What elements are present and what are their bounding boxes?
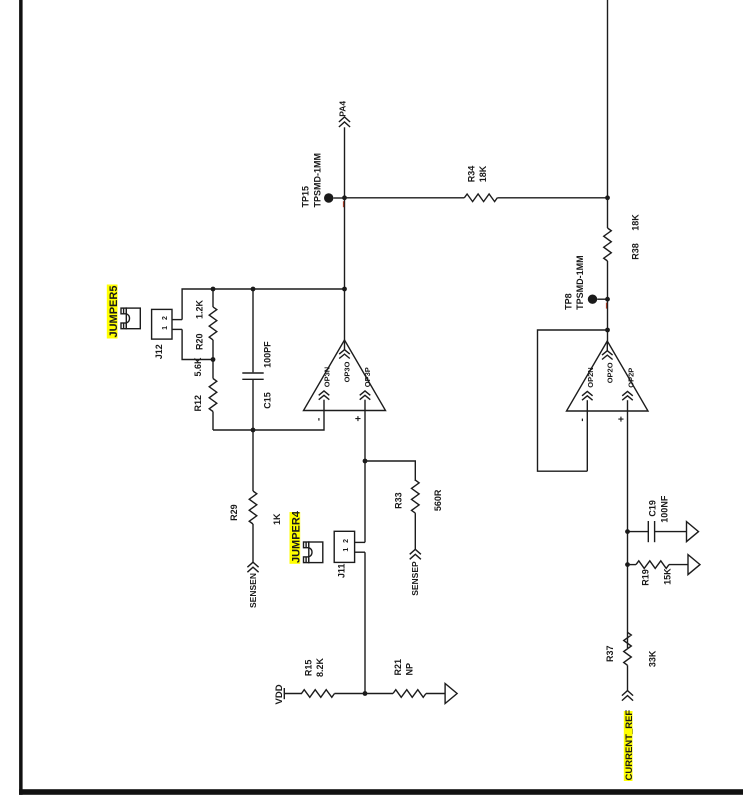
wire OP2 feedback [538, 330, 608, 471]
pin label OP2P [627, 368, 636, 388]
wire PA4 to output node [344, 127, 346, 198]
ground symbol (R19) [688, 555, 700, 575]
testpoint TP15 [324, 193, 345, 202]
pin number 1 of TP15 (red tick) [343, 201, 344, 207]
svg-text:OP2N: OP2N [586, 367, 595, 387]
wire node A to OP3 output [344, 198, 346, 340]
label R33 [394, 492, 404, 509]
op-amp U-OP3 triangle [304, 340, 386, 411]
svg-text:100PF: 100PF [263, 341, 273, 368]
label plus OP3 [353, 416, 364, 422]
net connector PA4 chevron [339, 117, 350, 127]
svg-text:5.6K: 5.6K [193, 357, 203, 377]
pin number 2 of J12 [162, 316, 169, 320]
connector J11 [334, 531, 365, 562]
net connector SENSEP chevron [410, 549, 421, 559]
svg-text:R19: R19 [641, 569, 651, 586]
svg-text:18K: 18K [478, 165, 488, 182]
wire OP3 non-inverting input down [364, 411, 366, 543]
label 1.2K (R20) [194, 299, 204, 319]
pin number 1 of TP8 (red tick) [606, 303, 607, 309]
net label SENSEP [410, 561, 420, 596]
svg-text:R34: R34 [467, 166, 477, 183]
wire top rail [182, 289, 344, 320]
label TPSMD-1MM (TP8) [575, 255, 585, 310]
svg-text:C15: C15 [263, 392, 273, 409]
wire VDD to R15 [284, 693, 302, 695]
svg-text:-: - [313, 418, 324, 421]
svg-text:JUMPER5: JUMPER5 [108, 286, 120, 338]
svg-text:R12: R12 [193, 395, 203, 412]
label TP8 [564, 293, 574, 310]
svg-text:1K: 1K [272, 513, 282, 525]
label R29 [229, 504, 239, 521]
pin number 2 of J11 [343, 539, 350, 543]
label R38 [631, 243, 641, 260]
resistor R37 [624, 632, 632, 665]
testpoint TP8 [588, 295, 608, 304]
pin number 1 of J11 [343, 548, 350, 552]
pin label OP2O [605, 362, 614, 383]
svg-text:R29: R29 [229, 504, 239, 521]
svg-text:2: 2 [162, 316, 169, 320]
wire bottom rail to inverting input [213, 411, 324, 431]
capacitor C15 [242, 289, 263, 430]
label J11 [337, 564, 347, 579]
junction R20 top [211, 287, 216, 292]
svg-text:OP3O: OP3O [343, 361, 352, 382]
label C15 [263, 392, 273, 409]
svg-text:NP: NP [405, 663, 415, 676]
wire top feed [607, 0, 609, 228]
pin label OP2N [586, 367, 595, 387]
wire R37 to CURRENT_REF [627, 665, 629, 690]
svg-text:-: - [577, 418, 588, 421]
label 560R (R33) [433, 489, 443, 511]
label R12 [193, 395, 203, 412]
svg-text:+: + [353, 416, 364, 422]
label R20 [194, 333, 204, 350]
junction output node on rail [342, 287, 347, 292]
resistor R29 [249, 430, 257, 562]
label 5.6K (R12) [193, 357, 203, 377]
svg-text:TP15: TP15 [301, 186, 311, 208]
svg-text:SENSEN: SENSEN [248, 573, 258, 608]
svg-text:J11: J11 [337, 564, 347, 579]
resistor R38 [604, 228, 612, 261]
junction node B [605, 195, 610, 200]
resistor R15 [302, 690, 366, 698]
svg-text:SENSEP: SENSEP [410, 561, 420, 596]
wire C19 to ground [655, 531, 687, 533]
pin label OP3N [323, 367, 332, 387]
ground symbol (C19) [687, 522, 699, 542]
pin chevron OP3O (output) [339, 340, 350, 359]
resistor R12 [209, 360, 217, 431]
wire OP2 inverting input [586, 411, 588, 471]
svg-text:2: 2 [343, 539, 350, 543]
junction at TP15 node [342, 195, 347, 200]
svg-text:OP2O: OP2O [605, 362, 614, 383]
pin number 1 of J12 [162, 326, 169, 330]
svg-text:100NF: 100NF [660, 495, 670, 523]
resistor R21 [365, 690, 445, 698]
junction at TP8 node [605, 297, 610, 302]
svg-text:TPSMD-1MM: TPSMD-1MM [313, 153, 323, 208]
pin chevron OP2P (non-inverting input) [622, 391, 633, 411]
wire R38 to OP2 output node [607, 261, 609, 341]
net label JUMPER5 (highlighted) [107, 285, 120, 339]
svg-text:J12: J12 [154, 344, 164, 359]
svg-text:R20: R20 [194, 333, 204, 350]
svg-text:VDD: VDD [274, 684, 285, 704]
svg-text:OP3P: OP3P [363, 367, 372, 387]
junction R19 node [625, 562, 630, 567]
resistor R20 [209, 289, 217, 360]
svg-text:R21: R21 [393, 659, 403, 676]
net connector CURRENT_REF chevron [622, 691, 633, 701]
net connector SENSEN chevron [247, 562, 258, 572]
label 18K (R38) [631, 214, 641, 231]
wire J11 pin1 down to VDD rail [364, 552, 366, 693]
wire R34 to node B [497, 197, 607, 199]
svg-text:R37: R37 [605, 645, 615, 662]
label TP15 [301, 186, 311, 208]
label 100NF (C19) [660, 495, 670, 523]
pin chevron OP2O (output) [602, 341, 613, 360]
resistor R19 [628, 561, 689, 569]
label 15K (R19) [663, 568, 673, 585]
connector J12 [152, 309, 183, 339]
svg-text:8.2K: 8.2K [315, 657, 325, 677]
wire to C19 [628, 531, 649, 533]
svg-text:1: 1 [162, 326, 169, 330]
sheet border bottom [19, 789, 743, 795]
label J12 [154, 344, 164, 359]
junction C19 node [625, 529, 630, 534]
pin chevron OP3P (non-inverting input) [360, 391, 371, 411]
pin label OP3O [343, 361, 352, 382]
label minus OP2 [577, 418, 588, 421]
pin chevron OP2N (inverting input) [582, 391, 593, 411]
svg-text:OP3N: OP3N [323, 367, 332, 387]
net label SENSEN [248, 573, 258, 608]
label R37 [605, 645, 615, 662]
svg-text:560R: 560R [433, 489, 443, 511]
svg-text:18K: 18K [631, 214, 641, 231]
jumper icon JUMPER5 [121, 308, 140, 329]
svg-text:CURRENT_REF: CURRENT_REF [624, 710, 635, 781]
wire J12 pin1 to R20 bottom [182, 329, 213, 359]
net label PA4 [337, 101, 347, 117]
junction C15 top [251, 287, 256, 292]
pin chevron OP3N (inverting input) [319, 391, 330, 411]
resistor R33 [412, 480, 420, 549]
label 8.2K (R15) [315, 657, 325, 677]
label TPSMD-1MM (TP15) [313, 153, 323, 208]
svg-text:C19: C19 [648, 500, 658, 517]
net label JUMPER4 (highlighted) [290, 510, 303, 564]
label 18K (R34) [478, 165, 488, 182]
junction R33 node [363, 459, 368, 464]
label 33K (R37) [648, 650, 658, 667]
ground symbol (R21) [445, 684, 457, 704]
label R15 [304, 660, 314, 677]
jumper icon JUMPER4 [304, 542, 323, 563]
svg-text:TP8: TP8 [564, 293, 574, 310]
label 1K (R29) [272, 513, 282, 525]
wire OP2 non-inverting input down [627, 411, 629, 648]
wire node A to R34 [345, 197, 465, 199]
junction C15 bottom [251, 428, 256, 433]
op-amp U-OP2 triangle [567, 341, 649, 411]
svg-text:+: + [617, 416, 628, 422]
svg-text:JUMPER4: JUMPER4 [291, 510, 303, 563]
junction VDD rail node [363, 691, 368, 696]
label R21 [393, 659, 403, 676]
svg-text:PA4: PA4 [337, 101, 347, 117]
label plus OP2 [617, 416, 628, 422]
label 100PF (C15) [263, 341, 273, 368]
pin label OP3P [363, 367, 372, 387]
junction R20-R12 node [211, 357, 216, 362]
svg-text:OP2P: OP2P [627, 368, 636, 388]
svg-text:TPSMD-1MM: TPSMD-1MM [575, 255, 585, 310]
label minus OP3 [313, 418, 324, 421]
svg-text:R38: R38 [631, 243, 641, 260]
svg-text:15K: 15K [663, 568, 673, 585]
junction OP2 output node [605, 328, 610, 333]
power pin VDD [274, 684, 285, 704]
net label CURRENT_REF (highlighted) [624, 710, 635, 781]
svg-text:1.2K: 1.2K [194, 299, 204, 319]
sheet border left [19, 0, 23, 795]
capacitor C19 [648, 521, 654, 542]
svg-text:1: 1 [343, 548, 350, 552]
svg-text:R15: R15 [304, 660, 314, 677]
svg-text:R33: R33 [394, 492, 404, 509]
label R19 [641, 569, 651, 586]
label C19 [648, 500, 658, 517]
label R34 [467, 166, 477, 183]
svg-text:33K: 33K [648, 650, 658, 667]
label NP (R21) [405, 663, 415, 676]
resistor R34 [464, 194, 497, 202]
wire to R33 [365, 461, 415, 481]
